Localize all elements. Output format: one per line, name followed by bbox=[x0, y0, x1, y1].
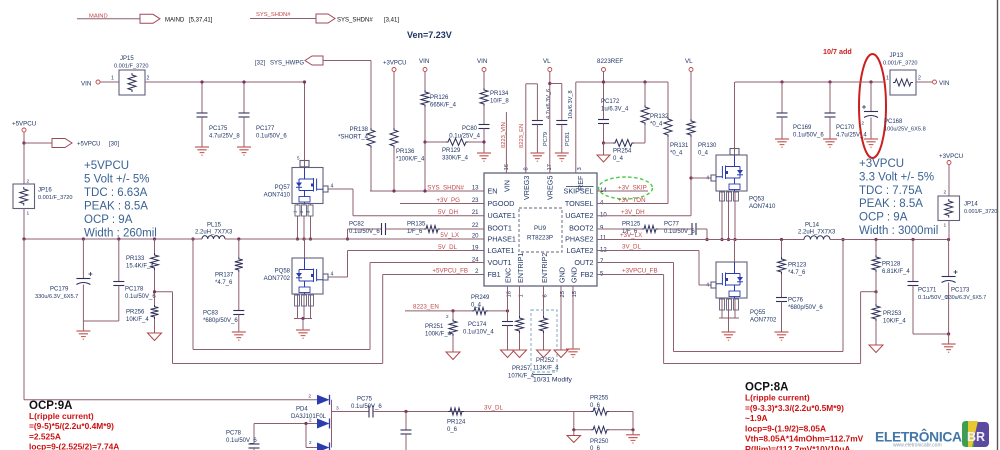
svg-text:Width : 3000mil: Width : 3000mil bbox=[859, 225, 938, 237]
svg-text:PC170: PC170 bbox=[836, 125, 855, 131]
svg-text:0.1u/50V_6: 0.1u/50V_6 bbox=[125, 294, 156, 300]
svg-text:OUT2: OUT2 bbox=[574, 258, 593, 267]
svg-text:*4.7_6: *4.7_6 bbox=[788, 270, 806, 276]
svg-text:PQ58: PQ58 bbox=[275, 269, 291, 275]
svg-text:AON7410: AON7410 bbox=[264, 193, 291, 199]
svg-text:0_6: 0_6 bbox=[447, 427, 458, 433]
svg-text:PR137: PR137 bbox=[215, 273, 234, 279]
svg-text:2.2uH_7X7X3: 2.2uH_7X7X3 bbox=[798, 230, 836, 236]
svg-text:+3VPCU: +3VPCU bbox=[383, 61, 407, 67]
svg-text:L(ripple current): L(ripple current) bbox=[29, 411, 94, 421]
svg-text:PR133: PR133 bbox=[126, 256, 145, 262]
svg-text:PC169: PC169 bbox=[793, 125, 812, 131]
svg-text:OCP : 9A: OCP : 9A bbox=[859, 212, 908, 224]
svg-text:+5VPCU: +5VPCU bbox=[84, 160, 129, 172]
svg-text:PR126: PR126 bbox=[430, 95, 449, 101]
svg-text:GND: GND bbox=[558, 267, 567, 283]
svg-text:10K/F_4: 10K/F_4 bbox=[126, 317, 149, 323]
svg-text:PHASE2: PHASE2 bbox=[565, 235, 593, 244]
svg-text:[3,41]: [3,41] bbox=[384, 18, 399, 24]
svg-text:PR253: PR253 bbox=[883, 311, 902, 317]
svg-text:+3VPCU_FB: +3VPCU_FB bbox=[622, 268, 658, 275]
svg-text:[5,37,41]: [5,37,41] bbox=[189, 18, 213, 24]
svg-text:~1.9A: ~1.9A bbox=[745, 413, 768, 423]
svg-text:330u/6.3V_6X5.7: 330u/6.3V_6X5.7 bbox=[946, 295, 986, 301]
svg-text:*680p/50V_6: *680p/50V_6 bbox=[203, 318, 238, 324]
svg-text:PC78: PC78 bbox=[226, 431, 242, 437]
svg-text:PC75: PC75 bbox=[357, 397, 373, 403]
svg-text:22: 22 bbox=[472, 223, 479, 229]
svg-text:3V_DL: 3V_DL bbox=[622, 244, 641, 251]
svg-text:1u/6.3V_4: 1u/6.3V_4 bbox=[601, 107, 629, 113]
svg-text:13: 13 bbox=[472, 186, 479, 192]
svg-text:PR249: PR249 bbox=[471, 295, 490, 301]
svg-text:1/F_6: 1/F_6 bbox=[407, 229, 423, 235]
svg-text:PC179: PC179 bbox=[50, 287, 69, 293]
svg-text:L(ripple current): L(ripple current) bbox=[745, 393, 810, 403]
svg-text:1: 1 bbox=[886, 76, 889, 82]
svg-text:VIN: VIN bbox=[81, 81, 91, 88]
svg-text:FB1: FB1 bbox=[488, 270, 501, 279]
svg-text:*4.7_6: *4.7_6 bbox=[215, 280, 233, 286]
svg-text:+3V_SKIP: +3V_SKIP bbox=[618, 185, 647, 192]
svg-text:1: 1 bbox=[944, 223, 947, 229]
svg-text:0_4: 0_4 bbox=[471, 303, 482, 309]
svg-text:0.1u/50V_6: 0.1u/50V_6 bbox=[351, 404, 382, 410]
svg-text:PD4: PD4 bbox=[296, 407, 308, 413]
svg-text:PR254: PR254 bbox=[613, 149, 632, 155]
svg-text:UGATE2: UGATE2 bbox=[565, 211, 593, 220]
svg-text:PR135: PR135 bbox=[407, 222, 426, 228]
svg-text:[30]: [30] bbox=[109, 142, 119, 148]
svg-text:8223_EN: 8223_EN bbox=[519, 124, 525, 148]
svg-text:REF: REF bbox=[576, 175, 585, 190]
svg-text:5 Volt +/- 5%: 5 Volt +/- 5% bbox=[84, 174, 150, 186]
svg-text:AON7410: AON7410 bbox=[749, 204, 776, 210]
svg-text:4.7u/25V_4: 4.7u/25V_4 bbox=[836, 133, 867, 139]
svg-text:PC175: PC175 bbox=[209, 126, 228, 132]
svg-text:0.1u/50V_6: 0.1u/50V_6 bbox=[226, 438, 257, 444]
svg-text:=(9-5)*5/(2.2u*0.4M*9): =(9-5)*5/(2.2u*0.4M*9) bbox=[29, 421, 114, 431]
svg-text:GND: GND bbox=[570, 267, 579, 283]
svg-text:MAIND: MAIND bbox=[165, 18, 185, 24]
svg-text:3V_DL: 3V_DL bbox=[484, 405, 503, 412]
svg-text:PC174: PC174 bbox=[468, 322, 487, 328]
svg-text:665K/F_4: 665K/F_4 bbox=[430, 103, 457, 109]
svg-text:PR131: PR131 bbox=[670, 143, 689, 149]
svg-text:107K/F_4: 107K/F_4 bbox=[508, 374, 535, 380]
svg-text:4.7u/6.3V_6: 4.7u/6.3V_6 bbox=[546, 89, 552, 119]
svg-text:PR132: PR132 bbox=[650, 114, 669, 120]
svg-text:0_4: 0_4 bbox=[698, 151, 709, 157]
svg-text:PC83: PC83 bbox=[203, 311, 219, 317]
svg-text:VREG3: VREG3 bbox=[522, 176, 531, 200]
svg-text:0_6: 0_6 bbox=[590, 446, 601, 450]
svg-text:PR123: PR123 bbox=[788, 263, 807, 269]
svg-text:PHASE1: PHASE1 bbox=[488, 235, 516, 244]
svg-text:PC80: PC80 bbox=[462, 126, 478, 132]
svg-text:330u/6.3V_6X5.7: 330u/6.3V_6X5.7 bbox=[35, 294, 78, 300]
svg-text:5V_DH: 5V_DH bbox=[438, 209, 458, 216]
svg-text:2: 2 bbox=[446, 314, 449, 319]
svg-text:0.1u/50V_6: 0.1u/50V_6 bbox=[256, 134, 287, 140]
svg-text:Width : 260mil: Width : 260mil bbox=[84, 228, 157, 240]
svg-text:24: 24 bbox=[472, 258, 479, 264]
svg-text:10/31 Modify: 10/31 Modify bbox=[533, 377, 573, 384]
svg-text:PC172: PC172 bbox=[601, 99, 620, 105]
svg-text:TDC : 6.63A: TDC : 6.63A bbox=[84, 187, 148, 199]
svg-text:2: 2 bbox=[861, 121, 864, 126]
svg-text:100K/F_4: 100K/F_4 bbox=[425, 332, 452, 338]
svg-text:21: 21 bbox=[472, 210, 479, 216]
svg-text:locp=9-(1.9/2)=8.05A: locp=9-(1.9/2)=8.05A bbox=[745, 423, 826, 433]
svg-text:0.1u/50V_6: 0.1u/50V_6 bbox=[664, 229, 695, 235]
svg-text:PR252: PR252 bbox=[536, 358, 555, 364]
svg-text:VIN: VIN bbox=[939, 80, 949, 87]
svg-text:VOUT1: VOUT1 bbox=[488, 258, 512, 267]
svg-text:2: 2 bbox=[918, 76, 921, 82]
svg-text:2: 2 bbox=[308, 394, 311, 400]
svg-text:15.4K/F_4: 15.4K/F_4 bbox=[126, 264, 154, 270]
svg-text:+3VPCU: +3VPCU bbox=[939, 153, 963, 160]
svg-text:JP14: JP14 bbox=[964, 202, 978, 208]
svg-text:0.001/F_3720: 0.001/F_3720 bbox=[38, 195, 73, 201]
svg-text:2: 2 bbox=[309, 440, 312, 445]
svg-text:FB2: FB2 bbox=[580, 270, 593, 279]
svg-text:VIN: VIN bbox=[419, 58, 429, 65]
svg-text:RT8223P: RT8223P bbox=[527, 235, 553, 242]
svg-text:PC79: PC79 bbox=[543, 132, 549, 146]
svg-text:8223_EN: 8223_EN bbox=[413, 304, 439, 311]
svg-text:PR256: PR256 bbox=[126, 310, 145, 316]
svg-text:AON7702: AON7702 bbox=[264, 276, 291, 282]
svg-text:TONSEL: TONSEL bbox=[565, 199, 594, 208]
svg-text:*SHORT_4: *SHORT_4 bbox=[338, 135, 369, 141]
svg-text:PR250: PR250 bbox=[590, 439, 609, 445]
svg-text:PC76: PC76 bbox=[788, 298, 804, 304]
svg-text:VL: VL bbox=[543, 58, 551, 65]
svg-text:+5VPCU: +5VPCU bbox=[12, 121, 36, 128]
svg-text:+3V_PG: +3V_PG bbox=[436, 197, 460, 204]
svg-text:11: 11 bbox=[600, 236, 607, 242]
svg-text:+3VPCU: +3VPCU bbox=[859, 158, 904, 170]
svg-text:PR128: PR128 bbox=[882, 262, 901, 268]
svg-text:PR257: PR257 bbox=[512, 366, 531, 372]
svg-text:JP13: JP13 bbox=[890, 53, 904, 59]
svg-text:2: 2 bbox=[147, 76, 150, 82]
svg-text:PR255: PR255 bbox=[590, 396, 609, 402]
svg-text:330K/F_4: 330K/F_4 bbox=[442, 156, 469, 162]
svg-text:0.1u/50V_6: 0.1u/50V_6 bbox=[349, 229, 380, 235]
svg-text:5: 5 bbox=[297, 156, 300, 161]
svg-text:PQ53: PQ53 bbox=[749, 197, 765, 203]
svg-text:EN: EN bbox=[488, 187, 498, 196]
svg-text:VIN: VIN bbox=[477, 58, 487, 65]
svg-text:5V_DL: 5V_DL bbox=[438, 244, 457, 251]
svg-text:LGATE1: LGATE1 bbox=[488, 246, 515, 255]
svg-text:=(9-3.3)*3.3/(2.2u*0.5M*9): =(9-3.3)*3.3/(2.2u*0.5M*9) bbox=[745, 403, 844, 413]
svg-text:OCP : 9A: OCP : 9A bbox=[84, 214, 133, 226]
svg-text:3: 3 bbox=[577, 167, 583, 170]
svg-text:ENC: ENC bbox=[504, 268, 513, 283]
svg-text:16: 16 bbox=[504, 164, 510, 170]
svg-text:4: 4 bbox=[331, 184, 334, 190]
svg-text:+3V_TON: +3V_TON bbox=[618, 197, 646, 204]
svg-text:0.1u/50V_6: 0.1u/50V_6 bbox=[918, 295, 948, 301]
svg-text:4: 4 bbox=[706, 283, 709, 289]
svg-text:PR130: PR130 bbox=[698, 143, 717, 149]
svg-text:VIN: VIN bbox=[503, 180, 512, 192]
svg-text:AON7702: AON7702 bbox=[750, 318, 777, 324]
svg-text:0.1u/25V_4: 0.1u/25V_4 bbox=[449, 134, 480, 140]
svg-text:PEAK : 8.5A: PEAK : 8.5A bbox=[859, 198, 923, 210]
svg-text:ENTRIP1: ENTRIP1 bbox=[516, 253, 525, 283]
svg-text:0.001/F_3720: 0.001/F_3720 bbox=[883, 61, 918, 67]
svg-text:8223REF: 8223REF bbox=[597, 58, 623, 65]
svg-text:PEAK : 8.5A: PEAK : 8.5A bbox=[84, 201, 148, 213]
svg-text:PR124: PR124 bbox=[447, 420, 466, 426]
svg-text:PC168: PC168 bbox=[884, 119, 903, 125]
svg-text:8: 8 bbox=[524, 167, 530, 170]
svg-text:0_6: 0_6 bbox=[590, 403, 601, 409]
svg-text:4: 4 bbox=[331, 272, 334, 278]
svg-text:[32]: [32] bbox=[255, 61, 265, 67]
svg-text:R(Ilim)=(112.7mV*10)/10uA: R(Ilim)=(112.7mV*10)/10uA bbox=[745, 444, 850, 450]
svg-text:10/7 add: 10/7 add bbox=[823, 47, 852, 56]
svg-text:+5VPCU: +5VPCU bbox=[77, 142, 101, 148]
svg-text:LGATE2: LGATE2 bbox=[566, 246, 593, 255]
svg-text:*680p/50V_6: *680p/50V_6 bbox=[788, 305, 823, 311]
svg-text:PR134: PR134 bbox=[490, 91, 509, 97]
svg-text:PGOOD: PGOOD bbox=[488, 199, 515, 208]
svg-text:PL14: PL14 bbox=[805, 223, 820, 229]
svg-text:PC177: PC177 bbox=[256, 126, 275, 132]
svg-text:*0_4: *0_4 bbox=[650, 122, 663, 128]
svg-text:JP15: JP15 bbox=[120, 56, 134, 62]
svg-text:4.7u/25V_8: 4.7u/25V_8 bbox=[209, 134, 240, 140]
svg-text:JP16: JP16 bbox=[38, 188, 52, 194]
svg-text:SYS_SHDN#: SYS_SHDN# bbox=[337, 18, 373, 24]
svg-text:0.001/F_3720: 0.001/F_3720 bbox=[964, 209, 997, 215]
svg-text:PR138: PR138 bbox=[350, 127, 369, 133]
svg-text:SYS_SHDN#: SYS_SHDN# bbox=[256, 12, 291, 18]
svg-text:PR129: PR129 bbox=[442, 148, 461, 154]
svg-text:VREG5: VREG5 bbox=[546, 176, 555, 200]
svg-text:8223_VIN: 8223_VIN bbox=[501, 122, 507, 148]
svg-text:PC173: PC173 bbox=[951, 288, 970, 294]
svg-text:BOOT1: BOOT1 bbox=[488, 224, 512, 233]
svg-text:SYS_SHDN#: SYS_SHDN# bbox=[427, 185, 464, 192]
svg-text:10/F_8: 10/F_8 bbox=[490, 99, 509, 105]
svg-text:2.2uH_7X7X3: 2.2uH_7X7X3 bbox=[195, 230, 233, 236]
svg-text:PC81: PC81 bbox=[565, 132, 571, 146]
svg-text:PR125: PR125 bbox=[622, 222, 641, 228]
svg-text:UGATE1: UGATE1 bbox=[488, 211, 516, 220]
svg-text:VL: VL bbox=[685, 58, 693, 65]
svg-text:+5VPCU_FB: +5VPCU_FB bbox=[432, 268, 468, 275]
svg-text:PR136: PR136 bbox=[396, 149, 415, 155]
svg-text:PC77: PC77 bbox=[664, 222, 680, 228]
svg-text:TDC : 7.75A: TDC : 7.75A bbox=[859, 185, 923, 197]
svg-text:PQ57: PQ57 bbox=[275, 185, 291, 191]
svg-text:+3V_LX: +3V_LX bbox=[620, 232, 642, 239]
svg-text:1: 1 bbox=[111, 76, 114, 82]
svg-text:0_4: 0_4 bbox=[613, 156, 624, 162]
svg-text:2: 2 bbox=[944, 190, 947, 196]
svg-text:0.1u/10V_4: 0.1u/10V_4 bbox=[463, 330, 494, 336]
svg-text:PC178: PC178 bbox=[125, 287, 144, 293]
svg-text:SYS_HWPG: SYS_HWPG bbox=[270, 61, 304, 67]
svg-text:100u/25V_6X5.8: 100u/25V_6X5.8 bbox=[884, 127, 926, 133]
svg-text:+3V_DH: +3V_DH bbox=[621, 209, 645, 216]
svg-text:113K/F_4: 113K/F_4 bbox=[533, 366, 559, 372]
svg-text:*0_4: *0_4 bbox=[670, 151, 683, 157]
svg-text:=2.525A: =2.525A bbox=[29, 431, 61, 441]
svg-text:23: 23 bbox=[472, 198, 479, 204]
svg-text:0.001/F_3720: 0.001/F_3720 bbox=[114, 64, 149, 70]
svg-text:PC82: PC82 bbox=[349, 222, 365, 228]
svg-text:6.81K/F_4: 6.81K/F_4 bbox=[882, 269, 910, 275]
svg-text:PR251: PR251 bbox=[425, 324, 444, 330]
svg-text:PL15: PL15 bbox=[207, 223, 222, 229]
svg-text:Vth=8.05A*14mOhm=112.7mV: Vth=8.05A*14mOhm=112.7mV bbox=[745, 434, 864, 444]
svg-text:BOOT2: BOOT2 bbox=[569, 224, 593, 233]
svg-text:19: 19 bbox=[472, 246, 479, 252]
svg-text:10K/F_4: 10K/F_4 bbox=[883, 319, 906, 325]
svg-text:locp=9-(2.525/2)=7.74A: locp=9-(2.525/2)=7.74A bbox=[29, 442, 119, 450]
svg-text:Ven=7.23V: Ven=7.23V bbox=[407, 30, 452, 40]
svg-text:ENTRIP2: ENTRIP2 bbox=[540, 253, 549, 283]
svg-text:*100K/F_4: *100K/F_4 bbox=[396, 157, 425, 163]
svg-text:3.3 Volt +/- 5%: 3.3 Volt +/- 5% bbox=[859, 171, 934, 183]
svg-text:0.1u/50V_6: 0.1u/50V_6 bbox=[793, 133, 824, 139]
svg-text:5V_LX: 5V_LX bbox=[440, 232, 459, 239]
svg-text:10u/6.3V_8: 10u/6.3V_8 bbox=[568, 90, 574, 119]
svg-text:PQ55: PQ55 bbox=[750, 310, 766, 316]
svg-text:1: 1 bbox=[27, 211, 30, 217]
svg-text:www.eletronicabr.com: www.eletronicabr.com bbox=[893, 443, 942, 449]
svg-text:PC171: PC171 bbox=[918, 288, 937, 294]
svg-text:PU9: PU9 bbox=[534, 225, 547, 232]
svg-text:3: 3 bbox=[336, 406, 339, 412]
svg-text:4: 4 bbox=[706, 176, 709, 182]
svg-text:2: 2 bbox=[309, 418, 312, 423]
svg-text:BR: BR bbox=[967, 430, 985, 444]
